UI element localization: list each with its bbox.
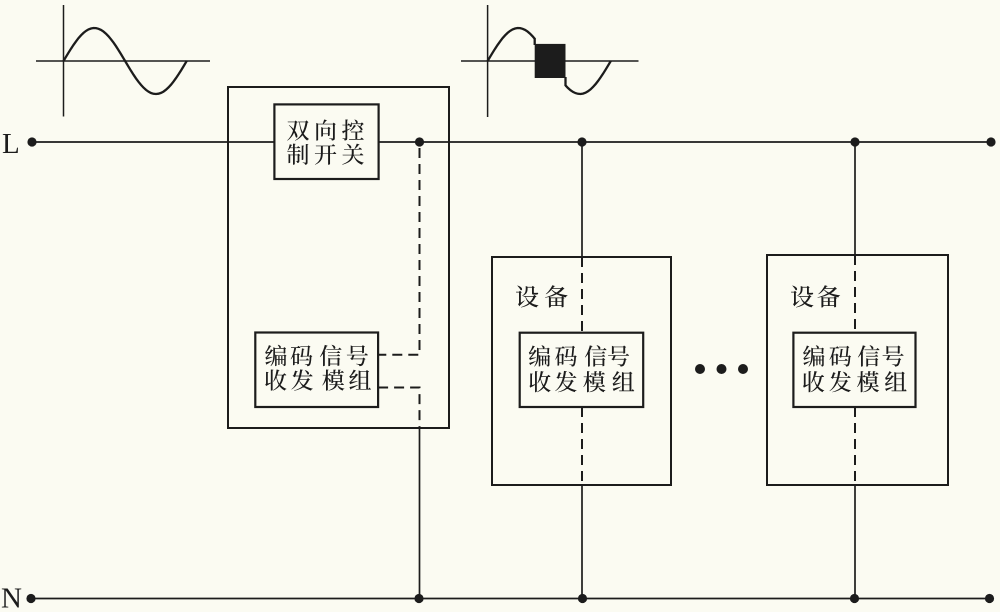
svg-text:N: N: [1, 583, 22, 612]
wire device 2 to N: [854, 485, 856, 599]
waveform 2 sine curve left segment: [488, 28, 535, 61]
text module 1 line 1: [265, 345, 368, 366]
waveform 2 black chopper block: [535, 44, 566, 78]
device 2 box: [767, 255, 948, 485]
node L device 1 junction: [577, 137, 586, 146]
wire N line: [31, 598, 990, 600]
transceiver module box 1: [255, 333, 378, 408]
waveform 1 vertical axis: [63, 5, 65, 117]
wire switch unit to N: [419, 428, 421, 599]
text module 1 line 2: [265, 369, 371, 390]
text bidirectional control switch line 1: [287, 119, 364, 140]
dashed wire module 1 lower stub down to box bottom: [378, 388, 419, 429]
node L start: [27, 137, 36, 146]
waveform 1 horizontal axis: [36, 60, 210, 62]
text module 2 line 1: [529, 345, 629, 366]
node L device 2 junction: [850, 137, 859, 146]
text module 3 line 1: [803, 345, 904, 366]
waveform 2 vertical axis: [487, 5, 489, 117]
node N end: [985, 594, 994, 603]
transceiver module box 2: [520, 333, 644, 407]
wire device 1 to N: [581, 485, 583, 599]
waveform 2 sine curve right segment: [566, 61, 611, 94]
dashed wire device 2 top to module 3: [854, 255, 856, 333]
bidirectional control switch box: [274, 104, 378, 179]
node L end: [986, 137, 995, 146]
switch unit outer box: [228, 87, 449, 428]
device 1 box: [492, 257, 671, 485]
ellipsis dots between devices: [695, 364, 748, 374]
dashed wire module 3 to device 2 bottom: [854, 407, 856, 485]
dashed wire device 1 top to module 2: [581, 257, 583, 333]
text bidirectional control switch line 2: [287, 144, 364, 165]
node N switch junction: [414, 594, 423, 603]
waveform 2 horizontal axis: [461, 60, 639, 62]
waveform 1 sine curve: [64, 28, 187, 94]
node L switch junction: [415, 137, 424, 146]
node N device 2 junction: [850, 594, 859, 603]
text module 3 line 2: [803, 371, 907, 392]
node N device 1 junction: [578, 594, 587, 603]
text device 1 label: [516, 285, 568, 307]
svg-text:L: L: [2, 128, 20, 160]
transceiver module box 3: [793, 333, 915, 407]
node N start: [26, 594, 35, 603]
wire L line left segment: [32, 141, 274, 143]
text device 2 label: [791, 285, 840, 307]
text module 2 line 2: [529, 371, 634, 392]
waveform 2 left cut tick: [534, 38, 536, 45]
waveform 2 right cut tick: [564, 77, 566, 86]
dashed wire module 2 to device 1 bottom: [581, 407, 583, 485]
wire L line right segment: [379, 141, 991, 143]
wire L to device 1: [581, 142, 583, 257]
dashed wire from L node down to module 1 upper stub: [378, 148, 419, 355]
wire L to device 2: [854, 142, 856, 255]
